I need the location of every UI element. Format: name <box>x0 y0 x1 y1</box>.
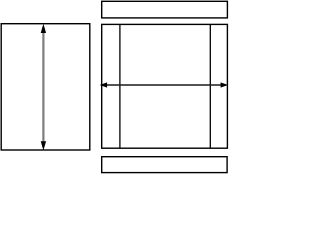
left rectangle <box>1 24 90 150</box>
vertical double-headed arrow <box>41 24 46 151</box>
top right rectangle <box>102 1 228 18</box>
large right rectangle <box>102 24 228 148</box>
inner right vertical line <box>209 24 211 148</box>
horizontal double-headed arrow <box>100 82 228 87</box>
inner left vertical line <box>119 24 121 148</box>
bottom right rectangle <box>102 157 227 173</box>
